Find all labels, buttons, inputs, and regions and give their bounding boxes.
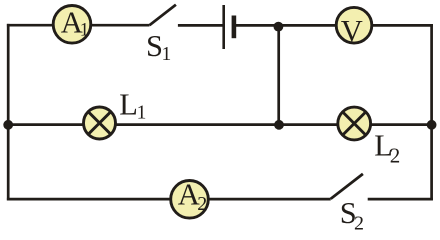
svg-text:L: L bbox=[119, 88, 138, 122]
svg-text:1: 1 bbox=[80, 21, 89, 41]
wire: switch S1 to battery bbox=[178, 24, 223, 27]
node: left middle junction bbox=[3, 120, 13, 130]
node: battery-branch junction (top) bbox=[274, 22, 284, 32]
lamp L1 bbox=[84, 107, 116, 139]
voltmeter V bbox=[336, 7, 372, 43]
wire: battery to right corner (passes under voltmeter) bbox=[234, 24, 433, 27]
svg-text:1: 1 bbox=[161, 44, 171, 65]
svg-text:1: 1 bbox=[137, 103, 147, 124]
wire: right vertical side bbox=[430, 24, 433, 200]
svg-text:2: 2 bbox=[197, 193, 207, 215]
svg-text:V: V bbox=[341, 14, 363, 48]
switch S2 (open blade) bbox=[331, 174, 363, 199]
wire: vertical branch from battery node down to middle row bbox=[277, 26, 280, 124]
wire: left vertical side bbox=[7, 24, 10, 201]
node: centre middle junction bbox=[274, 120, 284, 130]
wire: middle horizontal row bbox=[8, 123, 431, 126]
ammeter A1 bbox=[53, 6, 91, 44]
svg-text:S: S bbox=[146, 29, 163, 63]
wire: top-left horizontal segment (left corner to switch S1 pivot) bbox=[7, 24, 150, 27]
lamp L2 bbox=[338, 107, 371, 140]
svg-text:2: 2 bbox=[354, 212, 364, 231]
switch S1 (open blade) bbox=[150, 5, 176, 26]
node: right middle junction bbox=[427, 120, 437, 130]
wire: bottom-right segment (S2 contact to right corner) bbox=[368, 198, 433, 201]
ammeter A2 bbox=[171, 181, 209, 219]
wire: bottom horizontal (left corner to switch S2 pivot) bbox=[7, 198, 331, 201]
battery: short thick plate (negative) bbox=[232, 16, 237, 39]
battery: long plate (positive) bbox=[222, 5, 225, 49]
svg-text:2: 2 bbox=[390, 144, 401, 168]
